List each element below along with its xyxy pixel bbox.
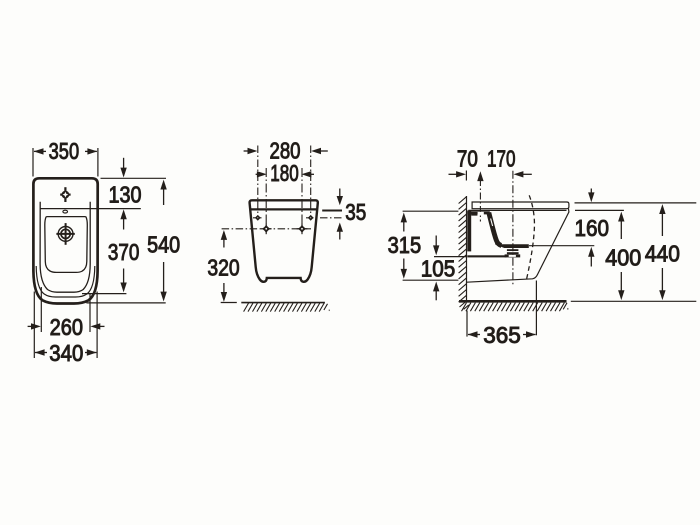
dim 70-170 top [449, 146, 532, 178]
small fixing hole right symbol [308, 215, 314, 221]
svg-text:180: 180 [270, 160, 299, 186]
dim 315 left [388, 211, 459, 280]
side floor hatching [462, 303, 569, 312]
basin outline [45, 217, 88, 273]
large fixing hole right symbol [297, 223, 308, 234]
section cut: top bar and lug [467, 211, 490, 215]
svg-text:130: 130 [109, 182, 142, 208]
section cut: outlet block [505, 254, 521, 257]
wall face line [466, 196, 468, 301]
drain centreline (170) [512, 171, 514, 285]
dim 350 top [33, 138, 98, 176]
basin top edge line [46, 216, 86, 218]
svg-text:365: 365 [483, 322, 521, 348]
svg-text:70: 70 [457, 146, 478, 172]
svg-text:260: 260 [50, 314, 83, 340]
dim 260 bottom [28, 287, 105, 340]
SIDE-VIEW-GROUP [388, 146, 697, 349]
svg-text:160: 160 [574, 215, 609, 241]
dim 340 bottom [34, 292, 97, 367]
dim 105 left [421, 236, 467, 301]
dim 180 [256, 160, 314, 186]
svg-text:320: 320 [207, 254, 239, 280]
rear floor hatching [244, 303, 330, 312]
dim 160 right [529, 189, 696, 267]
dim 365 bottom [467, 281, 536, 349]
section cut: bowl wall highlight [491, 219, 493, 227]
rim outline [40, 202, 90, 292]
section cut: trap step 2 [507, 252, 519, 254]
svg-text:105: 105 [421, 255, 456, 281]
FRONT-VIEW-GROUP [28, 138, 181, 366]
section cut: trap step 1 [507, 249, 519, 251]
fixing hole left (280) centreline [257, 146, 259, 215]
fixing hole left (180) centreline [265, 168, 267, 226]
wall extension line for 70 [465, 171, 467, 181]
dim 440 right [645, 204, 680, 300]
horizontal centreline through 180 holes [222, 228, 311, 230]
dim 540 right [86, 180, 180, 303]
wall hatching [459, 197, 469, 310]
bidet outer body outline (front view) [33, 178, 97, 303]
rear top shelf line [250, 208, 316, 210]
rim front edge line [40, 208, 90, 210]
section cut: fixing slot in bar [478, 212, 484, 215]
dim 370 right [82, 239, 139, 294]
drain symbol [56, 223, 74, 245]
hidden bowl dashed outline [526, 195, 534, 280]
side floor leader to right [571, 300, 697, 302]
fixing hole right (280) centreline [310, 146, 312, 215]
side floor line [459, 300, 567, 303]
dim 320 [207, 230, 239, 303]
section cut: back plate [467, 210, 471, 251]
rear body outline [250, 200, 318, 281]
bolt hole centreline (70) [479, 179, 481, 222]
small fixing hole left symbol [255, 215, 261, 221]
section cut: outlet white slot [509, 255, 516, 257]
svg-text:540: 540 [147, 232, 180, 258]
overflow hole oval [63, 210, 68, 213]
section cut: bottom line [467, 255, 506, 257]
large fixing hole left symbol [261, 223, 272, 234]
svg-text:370: 370 [108, 239, 140, 265]
svg-text:315: 315 [388, 232, 422, 258]
tap hole symbol [60, 187, 70, 202]
body front outline [467, 209, 569, 283]
svg-text:170: 170 [487, 146, 516, 172]
fixing hole right (180) centreline [301, 168, 303, 226]
inner shell foot arc [36, 266, 95, 297]
svg-text:400: 400 [605, 244, 641, 270]
ceramic rim top line [468, 209, 566, 211]
REAR-VIEW-GROUP [207, 138, 366, 312]
section cut: drain shelf [495, 241, 529, 248]
svg-text:440: 440 [645, 240, 680, 266]
dim 35 [322, 189, 366, 240]
svg-text:340: 340 [49, 340, 83, 366]
section cut: bowl wall [489, 213, 502, 246]
seat slab [472, 202, 569, 209]
svg-text:35: 35 [345, 199, 366, 225]
horizontal centreline through 280 holes / 35 dim [253, 217, 263, 219]
dim 130 right [90, 158, 166, 230]
dim 400 right [575, 210, 641, 300]
rear floor line [241, 302, 325, 304]
svg-text:350: 350 [49, 138, 80, 164]
dim 280 [244, 138, 328, 164]
